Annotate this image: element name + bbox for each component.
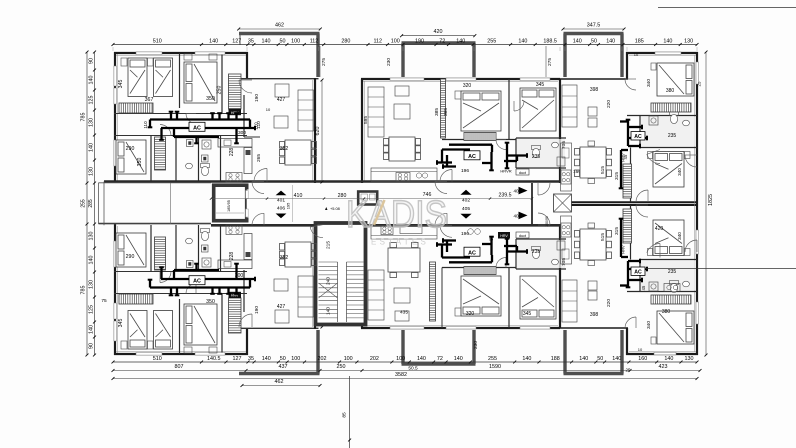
top main dimension chain xyxy=(113,44,697,46)
top dimension row 420 xyxy=(402,35,475,37)
svg-text:300: 300 xyxy=(238,130,246,136)
svg-text:705: 705 xyxy=(561,141,567,149)
svg-text:265: 265 xyxy=(256,154,262,162)
bedroom top-right xyxy=(657,63,694,96)
AC ducts right apartment top xyxy=(627,120,629,146)
svg-text:427: 427 xyxy=(277,97,286,103)
svg-text:215: 215 xyxy=(325,241,331,249)
interior walls left apartment bottom xyxy=(114,293,247,295)
svg-text:250: 250 xyxy=(337,364,346,370)
svg-text:410: 410 xyxy=(294,193,303,199)
HRV shaft top-left xyxy=(229,74,242,109)
svg-text:255: 255 xyxy=(81,199,87,208)
svg-text:280: 280 xyxy=(341,38,350,44)
svg-text:462: 462 xyxy=(275,23,284,29)
svg-text:350: 350 xyxy=(137,158,143,167)
svg-text:110: 110 xyxy=(254,122,259,130)
svg-text:140: 140 xyxy=(454,356,463,362)
svg-text:110: 110 xyxy=(143,121,148,129)
kitchen middle bottom xyxy=(371,226,437,240)
bedroom2 middle apt xyxy=(520,88,556,131)
svg-text:AC: AC xyxy=(468,250,476,256)
svg-text:510: 510 xyxy=(153,38,162,44)
svg-text:90: 90 xyxy=(89,58,95,64)
svg-text:140: 140 xyxy=(89,76,95,85)
svg-text:315: 315 xyxy=(614,227,620,235)
svg-text:320: 320 xyxy=(463,83,472,89)
living room left apt xyxy=(298,90,314,131)
svg-text:25: 25 xyxy=(626,367,631,372)
svg-text:AC: AC xyxy=(634,134,642,140)
door arcs bottom apt xyxy=(239,314,252,327)
svg-text:50.5: 50.5 xyxy=(408,365,418,371)
svg-text:423: 423 xyxy=(659,364,668,370)
svg-text:345: 345 xyxy=(523,311,532,317)
interior right apartment top xyxy=(627,115,697,117)
svg-text:230: 230 xyxy=(473,341,479,349)
svg-text:190: 190 xyxy=(415,38,424,44)
svg-text:40: 40 xyxy=(513,214,519,219)
svg-text:127: 127 xyxy=(232,38,241,44)
svg-text:AC: AC xyxy=(468,154,476,160)
corridor walls xyxy=(104,180,560,183)
svg-text:235: 235 xyxy=(532,154,541,160)
bedroom bottom-right xyxy=(657,311,694,344)
svg-text:140: 140 xyxy=(518,38,527,44)
svg-text:785: 785 xyxy=(81,286,87,295)
kitchen middle apt xyxy=(371,168,437,182)
wardrobe bottom xyxy=(155,237,166,270)
living room middle bottom xyxy=(368,270,384,320)
svg-text:50: 50 xyxy=(597,356,603,362)
svg-text:130: 130 xyxy=(685,356,694,362)
svg-text:1590: 1590 xyxy=(489,364,501,370)
svg-text:75: 75 xyxy=(101,298,107,304)
elevator main xyxy=(214,185,247,221)
svg-text:100: 100 xyxy=(291,356,300,362)
svg-text:1825: 1825 xyxy=(708,194,714,206)
exit arrows right xyxy=(519,187,528,195)
extension lines top xyxy=(112,47,114,51)
svg-text:595: 595 xyxy=(363,116,369,124)
terrace bottom-left walls xyxy=(239,372,320,375)
svg-text:duct: duct xyxy=(519,171,527,175)
wardrobe strip right apt xyxy=(623,164,632,198)
svg-text:398: 398 xyxy=(590,312,599,318)
svg-text:140: 140 xyxy=(89,256,95,265)
svg-text:320: 320 xyxy=(466,311,475,317)
svg-text:50: 50 xyxy=(280,38,286,44)
svg-text:AC: AC xyxy=(634,270,642,276)
left vertical chains xyxy=(94,52,96,183)
AC ducts middle apartment bottom xyxy=(449,261,492,263)
svg-text:365: 365 xyxy=(443,108,449,116)
svg-text:345: 345 xyxy=(118,319,124,328)
svg-text:10: 10 xyxy=(266,107,271,112)
svg-text:130: 130 xyxy=(89,232,95,241)
svg-text:352: 352 xyxy=(280,146,289,152)
svg-text:KADIS: KADIS xyxy=(346,194,447,236)
svg-text:72: 72 xyxy=(437,356,443,362)
svg-text:427: 427 xyxy=(277,304,286,310)
svg-text:620: 620 xyxy=(315,127,321,136)
svg-text:435: 435 xyxy=(400,310,408,316)
furniture: double bed room2 xyxy=(184,62,217,103)
svg-text:345: 345 xyxy=(118,80,124,89)
svg-text:340: 340 xyxy=(677,232,682,240)
svg-text:239.5: 239.5 xyxy=(499,193,512,199)
door arcs middle bottom xyxy=(440,225,452,237)
svg-text:785: 785 xyxy=(81,113,87,122)
bottom row 3 3582 xyxy=(113,378,697,380)
bathroom right apt xyxy=(641,117,696,147)
svg-text:130: 130 xyxy=(89,167,95,176)
svg-text:235: 235 xyxy=(668,133,677,139)
svg-text:401: 401 xyxy=(277,198,285,204)
svg-text:45: 45 xyxy=(641,285,646,290)
svg-text:140: 140 xyxy=(209,38,218,44)
bedroom3 bottom apt xyxy=(116,233,146,267)
svg-text:140.5: 140.5 xyxy=(207,356,221,362)
svg-text:125: 125 xyxy=(89,96,95,105)
svg-text:112: 112 xyxy=(373,38,382,44)
HRV shaft bottom-left xyxy=(229,298,242,333)
svg-text:10: 10 xyxy=(638,347,643,352)
svg-text:250: 250 xyxy=(217,86,223,95)
vestibule shaft with X xyxy=(554,194,572,212)
svg-text:437: 437 xyxy=(279,364,288,370)
terrace top-middle walls xyxy=(402,41,476,44)
svg-text:402: 402 xyxy=(462,197,470,203)
svg-text:140: 140 xyxy=(89,325,95,334)
living room middle apt xyxy=(368,87,384,137)
dining right bottom xyxy=(575,229,612,260)
svg-text:140: 140 xyxy=(262,356,271,362)
windows left apartment top xyxy=(136,52,162,55)
bathroom 1 left apt xyxy=(187,140,194,147)
kitchen left apt xyxy=(218,139,252,148)
svg-text:385: 385 xyxy=(434,108,440,116)
stair direction arrows set2 xyxy=(460,190,471,195)
svg-text:140: 140 xyxy=(612,356,621,362)
svg-text:130: 130 xyxy=(89,280,95,289)
windows middle bottom xyxy=(390,327,424,329)
svg-text:160: 160 xyxy=(638,356,647,362)
staircase xyxy=(316,223,366,325)
svg-text:140: 140 xyxy=(417,356,426,362)
svg-text:100: 100 xyxy=(396,356,405,362)
svg-text:220: 220 xyxy=(606,299,612,307)
svg-text:235: 235 xyxy=(668,269,677,275)
double bed bottom apt xyxy=(184,304,217,345)
svg-text:112: 112 xyxy=(310,38,319,44)
svg-text:188.5: 188.5 xyxy=(543,38,557,44)
svg-text:140: 140 xyxy=(89,143,95,152)
svg-text:347.5: 347.5 xyxy=(587,23,601,29)
sofa right bottom xyxy=(562,280,577,322)
bottom row 4 462 xyxy=(242,385,320,387)
svg-text:380: 380 xyxy=(666,88,675,94)
svg-text:398: 398 xyxy=(590,87,599,93)
terrace top-left walls xyxy=(239,32,320,35)
kitchen right bottom xyxy=(561,216,572,264)
svg-text:196: 196 xyxy=(461,168,469,174)
svg-text:HRVR: HRVR xyxy=(500,169,511,174)
living room bottom apt xyxy=(298,276,314,317)
bedroom 420 right apt bottom xyxy=(653,220,684,256)
svg-text:315: 315 xyxy=(614,172,620,180)
svg-text:100: 100 xyxy=(291,38,300,44)
door arcs right apt xyxy=(625,79,636,90)
svg-text:ESTATES: ESTATES xyxy=(371,238,430,247)
svg-text:290: 290 xyxy=(126,254,135,260)
svg-text:HRV: HRV xyxy=(621,245,626,254)
terrace bottom-right walls xyxy=(564,372,624,375)
AC ducts bottom-left apartment xyxy=(150,286,250,288)
bedroom2 middle bottom xyxy=(520,276,556,319)
svg-text:50: 50 xyxy=(591,38,597,44)
svg-text:345: 345 xyxy=(536,82,545,88)
svg-text:367: 367 xyxy=(145,97,154,103)
terrace top-right walls xyxy=(564,32,624,35)
bedroom2 right apt top xyxy=(653,152,684,188)
svg-text:185/95: 185/95 xyxy=(227,200,231,212)
svg-text:140: 140 xyxy=(262,38,271,44)
svg-text:40: 40 xyxy=(513,189,519,194)
interior walls left apartment top xyxy=(114,113,247,115)
svg-text:255: 255 xyxy=(488,356,497,362)
svg-text:285: 285 xyxy=(88,199,94,208)
svg-text:420: 420 xyxy=(655,226,664,232)
bathroom 2 left apt xyxy=(202,155,209,162)
svg-text:220: 220 xyxy=(606,100,612,108)
svg-text:3582: 3582 xyxy=(395,372,407,378)
svg-text:196: 196 xyxy=(461,231,469,237)
access gallery left xyxy=(99,182,212,184)
svg-text:275: 275 xyxy=(321,58,327,66)
outer walls right apartment xyxy=(559,79,561,183)
svg-text:72: 72 xyxy=(439,38,445,44)
svg-text:275: 275 xyxy=(547,58,553,66)
svg-text:85: 85 xyxy=(342,412,348,418)
svg-text:140: 140 xyxy=(579,356,588,362)
svg-text:340: 340 xyxy=(677,168,682,176)
svg-text:140: 140 xyxy=(663,38,672,44)
misc reference lines xyxy=(645,267,796,269)
windows middle top xyxy=(390,78,424,80)
svg-text:140: 140 xyxy=(664,356,673,362)
svg-text:228: 228 xyxy=(229,252,235,261)
svg-text:HRV: HRV xyxy=(621,153,626,162)
svg-text:230: 230 xyxy=(386,58,392,66)
AC ducts middle apartment top xyxy=(449,144,492,146)
svg-text:188: 188 xyxy=(551,356,560,362)
svg-text:515: 515 xyxy=(600,166,606,174)
bottom row 2 xyxy=(113,370,246,372)
svg-text:406: 406 xyxy=(277,206,285,212)
svg-text:35: 35 xyxy=(248,356,254,362)
svg-text:228: 228 xyxy=(229,148,235,157)
svg-text:190: 190 xyxy=(254,306,260,314)
svg-text:202: 202 xyxy=(318,356,327,362)
svg-text:127: 127 xyxy=(233,356,242,362)
lightwell dimension 620 xyxy=(321,80,323,182)
svg-text:380: 380 xyxy=(662,309,671,315)
svg-text:10: 10 xyxy=(634,52,639,57)
sofa right apt xyxy=(562,85,577,127)
svg-text:235: 235 xyxy=(532,249,541,255)
svg-text:140: 140 xyxy=(606,38,615,44)
wardrobe strip right bottom xyxy=(623,209,632,243)
svg-text:AC: AC xyxy=(193,279,201,285)
wall inner face lines xyxy=(117,54,119,181)
svg-text:515: 515 xyxy=(600,233,606,241)
kitchen bottom apt xyxy=(218,260,252,269)
svg-text:290: 290 xyxy=(126,146,135,152)
wardrobe hatched xyxy=(155,137,166,170)
dining right apt xyxy=(575,147,612,178)
outer walls left apartment bottom (mirror) xyxy=(114,224,116,355)
bottom dimension chain main xyxy=(113,361,697,363)
door arcs middle apt xyxy=(440,170,452,182)
svg-text:190: 190 xyxy=(254,94,260,102)
svg-text:340: 340 xyxy=(646,79,652,87)
svg-text:90: 90 xyxy=(89,343,95,349)
svg-text:+5.08: +5.08 xyxy=(330,206,340,211)
svg-text:50: 50 xyxy=(280,356,286,362)
dresser hatched bottom xyxy=(119,294,153,304)
svg-text:240: 240 xyxy=(325,277,331,285)
svg-text:duct: duct xyxy=(519,234,527,238)
svg-text:140: 140 xyxy=(325,307,331,315)
svg-text:96: 96 xyxy=(489,238,493,242)
svg-text:807: 807 xyxy=(175,364,184,370)
svg-text:195: 195 xyxy=(286,203,291,210)
windows left apartment bottom xyxy=(136,353,162,356)
275 vertical dims xyxy=(319,46,321,77)
interior middle apartment top xyxy=(441,79,446,138)
corridor door arcs xyxy=(252,182,264,194)
furniture: bedroom twin beds xyxy=(128,58,147,97)
kitchen right apt xyxy=(561,143,572,191)
svg-text:140: 140 xyxy=(573,38,582,44)
interior right apartment bottom xyxy=(627,291,697,293)
svg-text:420: 420 xyxy=(434,29,443,35)
dresser hatched xyxy=(119,103,153,113)
svg-text:140: 140 xyxy=(456,38,465,44)
svg-text:HRV: HRV xyxy=(500,234,508,238)
watermark KADIS xyxy=(346,194,447,247)
svg-text:35: 35 xyxy=(248,38,254,44)
bathrooms bottom apt xyxy=(187,261,194,268)
door arcs left apt xyxy=(239,80,252,93)
outer walls left apartment top xyxy=(114,52,116,183)
svg-text:350: 350 xyxy=(206,299,215,305)
svg-text:202: 202 xyxy=(370,356,379,362)
terrace bottom-middle walls xyxy=(402,362,476,365)
door arcs right bottom xyxy=(625,317,636,328)
svg-text:125: 125 xyxy=(89,305,95,314)
bathroom middle apt fill xyxy=(517,139,565,167)
svg-text:510: 510 xyxy=(153,356,162,362)
bedroom1 middle apt xyxy=(461,91,501,131)
windows right apt xyxy=(655,52,681,54)
svg-text:405: 405 xyxy=(462,206,470,212)
top dimension row A xyxy=(239,28,321,30)
interior middle apartment bottom xyxy=(430,262,436,321)
svg-text:130: 130 xyxy=(684,38,693,44)
corridor centerline and labels xyxy=(211,198,532,200)
svg-text:255: 255 xyxy=(487,38,496,44)
svg-text:130: 130 xyxy=(89,118,95,127)
svg-text:100: 100 xyxy=(391,38,400,44)
svg-text:340: 340 xyxy=(646,321,652,329)
svg-text:705: 705 xyxy=(561,258,567,266)
svg-text:140: 140 xyxy=(522,356,531,362)
right vertical chain 1825 xyxy=(705,52,707,355)
stair direction arrows set1 xyxy=(276,191,287,196)
svg-text:185: 185 xyxy=(635,38,644,44)
svg-text:AC: AC xyxy=(193,125,201,131)
bedroom1 middle bottom xyxy=(461,276,501,316)
svg-text:100: 100 xyxy=(344,356,353,362)
twin beds bottom apt xyxy=(128,311,147,350)
svg-text:462: 462 xyxy=(275,379,284,385)
elevator 2 small xyxy=(358,192,377,205)
bedroom3 bottom xyxy=(116,140,146,174)
svg-text:350: 350 xyxy=(206,96,215,102)
outer walls middle apartment xyxy=(361,79,363,183)
AC ducts top-left apartment xyxy=(150,118,250,120)
AC ducts right apartment bottom xyxy=(627,261,629,287)
svg-text:352: 352 xyxy=(280,255,289,261)
